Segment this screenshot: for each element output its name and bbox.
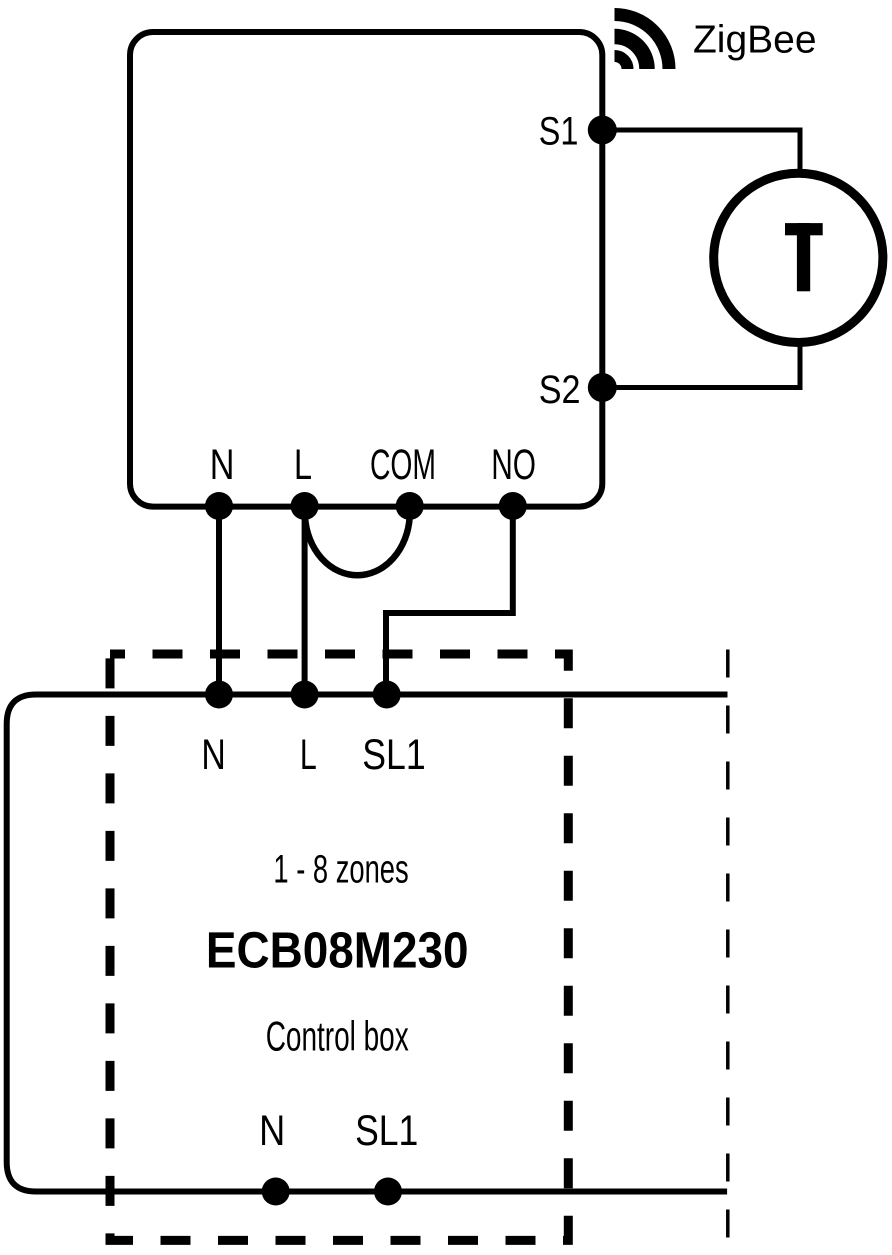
svg-text:NO: NO bbox=[491, 442, 536, 489]
svg-text:ECB08M230: ECB08M230 bbox=[206, 922, 469, 979]
svg-text:S1: S1 bbox=[539, 110, 579, 154]
junction SL1 (bus) bbox=[373, 681, 401, 709]
wire S2 to thermostat bbox=[602, 343, 800, 388]
wire N down bbox=[216, 506, 222, 695]
terminal S2 bbox=[588, 373, 617, 402]
terminal L (relay) bbox=[291, 492, 319, 520]
wire L down bbox=[302, 506, 308, 695]
ZigBee icon bbox=[615, 15, 670, 70]
terminal S1 bbox=[588, 116, 617, 145]
terminal N (relay) bbox=[205, 492, 233, 520]
wire NO to SL1 bbox=[386, 506, 513, 695]
svg-text:N: N bbox=[259, 1107, 285, 1155]
svg-text:1 - 8 zones: 1 - 8 zones bbox=[273, 848, 408, 892]
thermostat T1 bbox=[714, 173, 883, 342]
junction L (bus) bbox=[291, 681, 319, 709]
svg-text:SL1: SL1 bbox=[362, 732, 425, 779]
mains bus wire (top bus, left loop, bottom bus) bbox=[7, 695, 728, 1192]
terminal N (control box) bbox=[262, 1178, 290, 1206]
svg-text:COM: COM bbox=[370, 442, 436, 489]
svg-text:Control box: Control box bbox=[266, 1013, 409, 1060]
terminal SL1 (control box) bbox=[374, 1178, 402, 1206]
svg-text:N: N bbox=[210, 442, 235, 489]
jumper L-COM bbox=[305, 517, 410, 575]
svg-text:N: N bbox=[201, 732, 225, 779]
svg-text:L: L bbox=[294, 442, 312, 489]
zone boundary (thin dashed line) bbox=[726, 650, 730, 1255]
wire S1 to thermostat bbox=[602, 130, 800, 175]
control box (dashed outline) bbox=[110, 654, 568, 1240]
terminal COM bbox=[396, 492, 424, 520]
svg-text:ZigBee: ZigBee bbox=[693, 19, 817, 62]
svg-text:L: L bbox=[300, 732, 317, 779]
junction N (bus) bbox=[205, 681, 233, 709]
relay box bbox=[130, 32, 602, 507]
terminal NO bbox=[499, 492, 527, 520]
svg-text:SL1: SL1 bbox=[355, 1107, 418, 1155]
svg-text:S2: S2 bbox=[539, 368, 581, 412]
